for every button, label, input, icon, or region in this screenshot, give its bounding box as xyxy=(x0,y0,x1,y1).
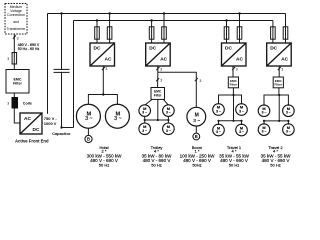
travel2 motor M14 xyxy=(258,124,270,136)
svg-text:3: 3 xyxy=(105,67,107,71)
wire filter to bar1 xyxy=(278,88,280,95)
svg-text:50 Hz - 60 Hz: 50 Hz - 60 Hz xyxy=(18,47,40,51)
boom motor M7 xyxy=(187,107,206,126)
svg-text:B: B xyxy=(195,134,198,139)
svg-text:Filter: Filter xyxy=(275,83,283,87)
phase slash 3 trolley filter drop xyxy=(156,78,159,81)
svg-text:3 ~: 3 ~ xyxy=(286,130,291,134)
wire inner rail to fuse F3a xyxy=(151,21,153,44)
svg-text:3: 3 xyxy=(7,101,9,105)
svg-text:Transformer: Transformer xyxy=(7,27,27,31)
wire filter to bar1 xyxy=(232,88,234,95)
750V label backing box xyxy=(43,114,61,128)
fuse F3a xyxy=(149,27,154,39)
fuse F5b xyxy=(283,27,288,39)
svg-text:3 ~: 3 ~ xyxy=(193,118,200,124)
svg-text:Capacitor: Capacitor xyxy=(52,131,71,136)
medium voltage source box (dashed) xyxy=(5,4,27,35)
travel1 EMC filter text xyxy=(230,79,238,87)
wire EMC filter to line reactor coils xyxy=(13,93,15,98)
svg-text:3 ~: 3 ~ xyxy=(166,111,171,115)
travel2 label block xyxy=(261,145,292,167)
trolley EMC filter text xyxy=(154,90,163,98)
inverter U3 box xyxy=(146,43,171,66)
fuse F1 xyxy=(12,53,17,65)
fuse F4a xyxy=(224,27,229,39)
travel1 motor texts xyxy=(216,105,244,134)
fuse F2b xyxy=(107,27,112,39)
phase slash 3 trolley output xyxy=(156,67,159,70)
travel1 top motor bar xyxy=(219,95,242,104)
svg-text:Filter: Filter xyxy=(13,81,22,85)
svg-text:AC: AC xyxy=(24,116,31,122)
fuse F4b xyxy=(237,27,242,39)
EMC filter box (input) xyxy=(6,70,29,94)
wire inverter U5 output xyxy=(278,66,280,77)
trolley motor M6 xyxy=(163,123,175,135)
svg-text:3: 3 xyxy=(281,67,283,71)
svg-text:50 Hz: 50 Hz xyxy=(270,162,280,167)
travel2 motor texts xyxy=(262,106,291,134)
svg-text:3 ~: 3 ~ xyxy=(166,129,171,133)
svg-text:3: 3 xyxy=(17,36,19,40)
travel1 bottom motor bar xyxy=(219,121,242,125)
wire split to hoist motors xyxy=(88,95,117,105)
DC link: inner bus rail xyxy=(74,20,273,22)
EMC filter text xyxy=(13,77,22,85)
DC link: outer bus rail xyxy=(48,13,286,15)
wire outer rail to fuse F4b xyxy=(239,14,241,44)
svg-text:3 ~: 3 ~ xyxy=(216,109,221,113)
wire outer rail end to fuse F5b xyxy=(285,14,287,44)
svg-text:Filter: Filter xyxy=(154,94,163,98)
travel1 motor M10 xyxy=(213,124,225,136)
wire inner rail end to fuse F5a xyxy=(272,21,274,44)
DC link bottom wire xyxy=(48,21,74,128)
svg-text:3 ~: 3 ~ xyxy=(262,130,267,134)
wire inverter U2 output xyxy=(102,66,104,95)
wire outer rail to fuse F2b xyxy=(109,14,111,44)
phase slash 3 hoist output xyxy=(102,67,105,70)
svg-text:Connection: Connection xyxy=(7,13,25,17)
svg-text:DC: DC xyxy=(94,45,101,51)
brake B1 circle xyxy=(85,135,92,142)
wire trolley output to boom motor xyxy=(158,72,197,107)
fuse F2a xyxy=(95,27,100,39)
svg-text:B: B xyxy=(87,137,90,142)
svg-text:3: 3 xyxy=(160,67,162,71)
svg-text:3 ~: 3 ~ xyxy=(142,129,147,133)
wire motor M1 to brake xyxy=(87,128,89,135)
svg-text:DC: DC xyxy=(225,45,232,51)
line reactor coils (solid) xyxy=(12,98,18,109)
svg-text:Filter: Filter xyxy=(230,83,238,87)
travel1 motor M11 xyxy=(236,124,248,136)
svg-text:3: 3 xyxy=(7,57,9,61)
travel2 top motor bar xyxy=(264,95,288,106)
wire coils to AFE xyxy=(14,108,20,123)
svg-text:DC: DC xyxy=(33,127,40,133)
svg-text:Active Front End: Active Front End xyxy=(15,139,49,144)
svg-text:50 Hz: 50 Hz xyxy=(99,162,109,167)
trolley motor texts xyxy=(142,106,171,133)
inverter U2 box xyxy=(90,43,115,66)
travel1 label block xyxy=(219,145,250,167)
phase slash 3 on input wire xyxy=(13,35,16,38)
wire inverter U4 output xyxy=(232,66,234,77)
hoist motor M1 text xyxy=(85,111,93,122)
AFE rectifier box U1 xyxy=(20,113,42,134)
trolley EMC filter box xyxy=(151,88,165,100)
trolley motor M5 xyxy=(139,123,151,135)
svg-text:50 Hz: 50 Hz xyxy=(229,162,239,167)
wires filter to top trolley motors xyxy=(145,99,168,105)
travel1 EMC filter box xyxy=(228,77,238,88)
svg-text:AC: AC xyxy=(236,57,243,63)
wire inner rail to fuse F4a xyxy=(226,21,228,44)
boom motor M7 text xyxy=(193,112,200,124)
svg-text:DC: DC xyxy=(149,45,156,51)
svg-text:M: M xyxy=(195,112,199,118)
boom label block xyxy=(180,145,216,167)
svg-text:3 ~: 3 ~ xyxy=(216,130,221,134)
trolley motor M4 xyxy=(163,105,175,117)
svg-text:3 ~: 3 ~ xyxy=(239,109,244,113)
svg-text:AC: AC xyxy=(281,57,288,63)
phase slash 3 boom drop xyxy=(195,78,198,81)
trolley motor M3 xyxy=(139,105,151,117)
wire outer rail to fuse F3b xyxy=(163,14,165,44)
svg-text:and: and xyxy=(13,20,19,24)
fuse F3b xyxy=(162,27,167,39)
trolley motor bar xyxy=(145,116,169,123)
svg-text:3: 3 xyxy=(236,67,238,71)
fuse F5a xyxy=(271,27,276,39)
wire motor M7 to brake xyxy=(195,126,197,133)
svg-text:AC: AC xyxy=(160,57,167,63)
wire filter to motor bar xyxy=(157,99,159,120)
wire center down to bar2 xyxy=(278,95,280,121)
phase slash 3 travel2 output xyxy=(278,67,281,70)
svg-text:3 ~: 3 ~ xyxy=(262,111,267,115)
wire inverter U3 output xyxy=(157,66,159,72)
capacitor branch wire xyxy=(61,14,63,128)
travel2 motor M12 xyxy=(258,105,270,117)
svg-text:3: 3 xyxy=(160,79,162,83)
svg-text:3: 3 xyxy=(199,79,201,83)
svg-text:3 ~: 3 ~ xyxy=(286,111,291,115)
svg-text:Coils: Coils xyxy=(23,101,32,105)
hoist motor M2 xyxy=(105,104,129,128)
travel2 motor M15 xyxy=(283,124,295,136)
travel1 motor M9 xyxy=(236,104,248,116)
svg-text:AC: AC xyxy=(105,57,112,63)
svg-text:50 Hz: 50 Hz xyxy=(151,162,161,167)
svg-text:3 ~: 3 ~ xyxy=(85,116,93,122)
svg-text:3 ~: 3 ~ xyxy=(239,130,244,134)
wire center down to bar2 xyxy=(233,95,235,121)
wire from transformer down to fuse F1 xyxy=(13,34,15,70)
svg-text:3 ~: 3 ~ xyxy=(114,116,122,122)
svg-text:DC: DC xyxy=(270,45,277,51)
hoist motor M1 xyxy=(76,104,100,128)
wire AFE to outer rail xyxy=(42,14,48,128)
capacitor C1 plates xyxy=(54,69,70,72)
junction node on bottom wire xyxy=(60,126,62,128)
hoist label block xyxy=(87,145,123,167)
wire inner rail to fuse F2a xyxy=(96,21,98,44)
svg-text:3 ~: 3 ~ xyxy=(142,111,147,115)
travel1 motor M8 xyxy=(213,104,225,116)
travel2 bottom motor bar xyxy=(264,121,288,125)
wire drop to trolley EMC filter xyxy=(157,72,159,87)
inverter U5 box xyxy=(267,43,292,66)
brake B2 circle xyxy=(193,133,200,140)
travel2 motor M13 xyxy=(283,105,295,117)
medium voltage box text xyxy=(7,5,27,31)
junction node on outer rail xyxy=(60,12,62,14)
svg-text:1000 V: 1000 V xyxy=(44,121,57,126)
phase slash 3 travel1 output xyxy=(232,67,235,70)
svg-text:50Hz: 50Hz xyxy=(192,162,201,167)
inverter U4 box xyxy=(222,43,247,66)
travel2 EMC filter box xyxy=(273,77,283,88)
hoist motor M2 text xyxy=(114,111,122,122)
trolley label block xyxy=(142,145,173,167)
travel2 EMC filter text xyxy=(275,79,283,87)
